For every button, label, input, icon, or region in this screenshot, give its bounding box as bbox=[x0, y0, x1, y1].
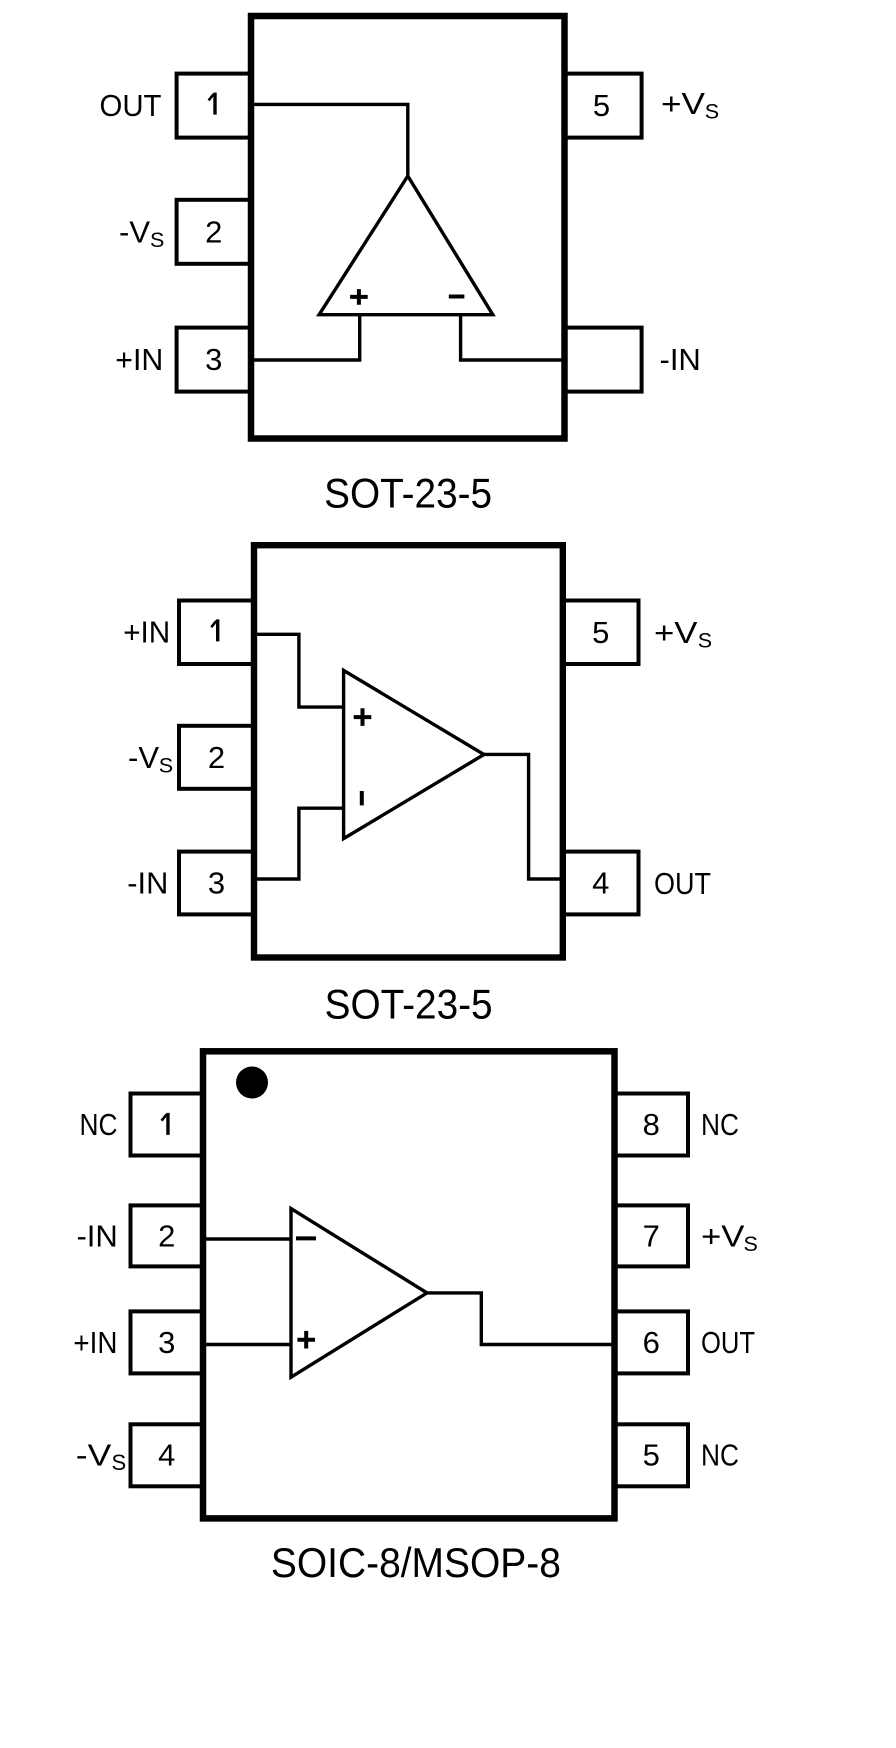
pin 3 box bbox=[131, 1311, 204, 1373]
svg-text:-IN: -IN bbox=[127, 866, 168, 901]
svg-text:SOIC-8/MSOP-8: SOIC-8/MSOP-8 bbox=[271, 1539, 561, 1586]
pin 3 box bbox=[177, 328, 251, 392]
pin 1 box bbox=[179, 601, 254, 665]
pin 3 box bbox=[179, 852, 254, 915]
svg-text:+V: +V bbox=[701, 1219, 745, 1254]
svg-text:S: S bbox=[112, 1450, 127, 1475]
svg-text:7: 7 bbox=[643, 1219, 660, 1254]
svg-text:3: 3 bbox=[205, 342, 222, 377]
IC body box U1 bbox=[251, 16, 565, 439]
svg-text:S: S bbox=[150, 228, 164, 252]
wire pin1 to + input bbox=[254, 634, 344, 707]
svg-text:S: S bbox=[705, 99, 719, 123]
plus sign bbox=[297, 1331, 315, 1349]
svg-text:4: 4 bbox=[592, 866, 609, 901]
svg-text:2: 2 bbox=[158, 1219, 175, 1254]
svg-text:6: 6 bbox=[643, 1325, 660, 1360]
pin 2 box bbox=[177, 200, 251, 264]
wire pin1 to op-amp apex bbox=[251, 104, 408, 176]
minus sign bbox=[296, 1236, 316, 1240]
pin 4 box bbox=[563, 852, 639, 915]
svg-text:2: 2 bbox=[205, 214, 222, 249]
pin 4 box (-IN, unnumbered) bbox=[565, 328, 642, 392]
svg-text:S: S bbox=[744, 1232, 758, 1256]
svg-text:OUT: OUT bbox=[701, 1325, 755, 1360]
pin number 1 bbox=[209, 93, 215, 115]
svg-text:5: 5 bbox=[593, 88, 610, 123]
svg-text:NC: NC bbox=[701, 1107, 739, 1142]
svg-text:4: 4 bbox=[158, 1438, 175, 1473]
svg-text:+IN: +IN bbox=[73, 1325, 117, 1360]
pin 8 box bbox=[615, 1094, 689, 1156]
svg-text:OUT: OUT bbox=[654, 866, 711, 901]
svg-text:5: 5 bbox=[643, 1438, 660, 1473]
pin 6 box bbox=[615, 1311, 689, 1373]
wire output to pin4 bbox=[484, 754, 563, 879]
svg-text:NC: NC bbox=[701, 1438, 739, 1473]
svg-text:S: S bbox=[698, 629, 712, 653]
wire pin3 to - input bbox=[254, 808, 344, 879]
svg-text:+V: +V bbox=[654, 615, 698, 650]
svg-text:SOT-23-5: SOT-23-5 bbox=[324, 469, 492, 516]
plus sign bbox=[350, 289, 368, 305]
svg-text:-V: -V bbox=[76, 1438, 112, 1473]
wire pin2 to - input bbox=[203, 1237, 291, 1240]
pin 2 box bbox=[179, 726, 254, 789]
pin 1 box bbox=[177, 74, 251, 138]
pin 4 box bbox=[131, 1424, 204, 1486]
IC body box U3 bbox=[203, 1051, 615, 1518]
svg-text:+IN: +IN bbox=[115, 342, 163, 377]
op-amp A2 triangle bbox=[344, 670, 484, 838]
plus sign bbox=[354, 708, 372, 726]
pin 5 box bbox=[563, 601, 639, 665]
svg-text:SOT-23-5: SOT-23-5 bbox=[325, 981, 493, 1028]
op-amp A1 triangle bbox=[319, 176, 493, 315]
svg-text:-IN: -IN bbox=[660, 342, 701, 377]
pin 7 box bbox=[615, 1205, 689, 1266]
pin number 1 bbox=[162, 1113, 168, 1135]
pin 1 index dot bbox=[236, 1067, 268, 1099]
minus sign bbox=[449, 295, 465, 299]
svg-text:-V: -V bbox=[119, 214, 150, 249]
svg-text:-IN: -IN bbox=[76, 1219, 117, 1254]
wire output to pin6 bbox=[427, 1293, 615, 1345]
svg-text:3: 3 bbox=[158, 1325, 175, 1360]
svg-text:8: 8 bbox=[643, 1107, 660, 1142]
svg-text:S: S bbox=[159, 754, 173, 778]
svg-text:+V: +V bbox=[661, 86, 705, 121]
svg-text:2: 2 bbox=[208, 740, 225, 775]
pin number 1 bbox=[211, 619, 217, 641]
minus sign (vertical) bbox=[360, 791, 364, 805]
svg-text:OUT: OUT bbox=[100, 88, 162, 123]
pin 2 box bbox=[131, 1205, 204, 1266]
svg-text:5: 5 bbox=[592, 615, 609, 650]
wire +IN input bbox=[251, 315, 360, 360]
op-amp A3 triangle bbox=[291, 1209, 427, 1378]
svg-text:3: 3 bbox=[208, 866, 225, 901]
svg-text:-V: -V bbox=[128, 740, 159, 775]
pin 5 box bbox=[565, 74, 642, 138]
pin 1 box bbox=[131, 1094, 204, 1156]
svg-text:+IN: +IN bbox=[123, 615, 170, 650]
wire pin3 to + input bbox=[203, 1343, 291, 1346]
wire -IN input bbox=[461, 315, 565, 360]
pin 5 box bbox=[615, 1424, 689, 1486]
svg-text:NC: NC bbox=[80, 1107, 118, 1142]
IC body box U2 bbox=[254, 545, 563, 957]
